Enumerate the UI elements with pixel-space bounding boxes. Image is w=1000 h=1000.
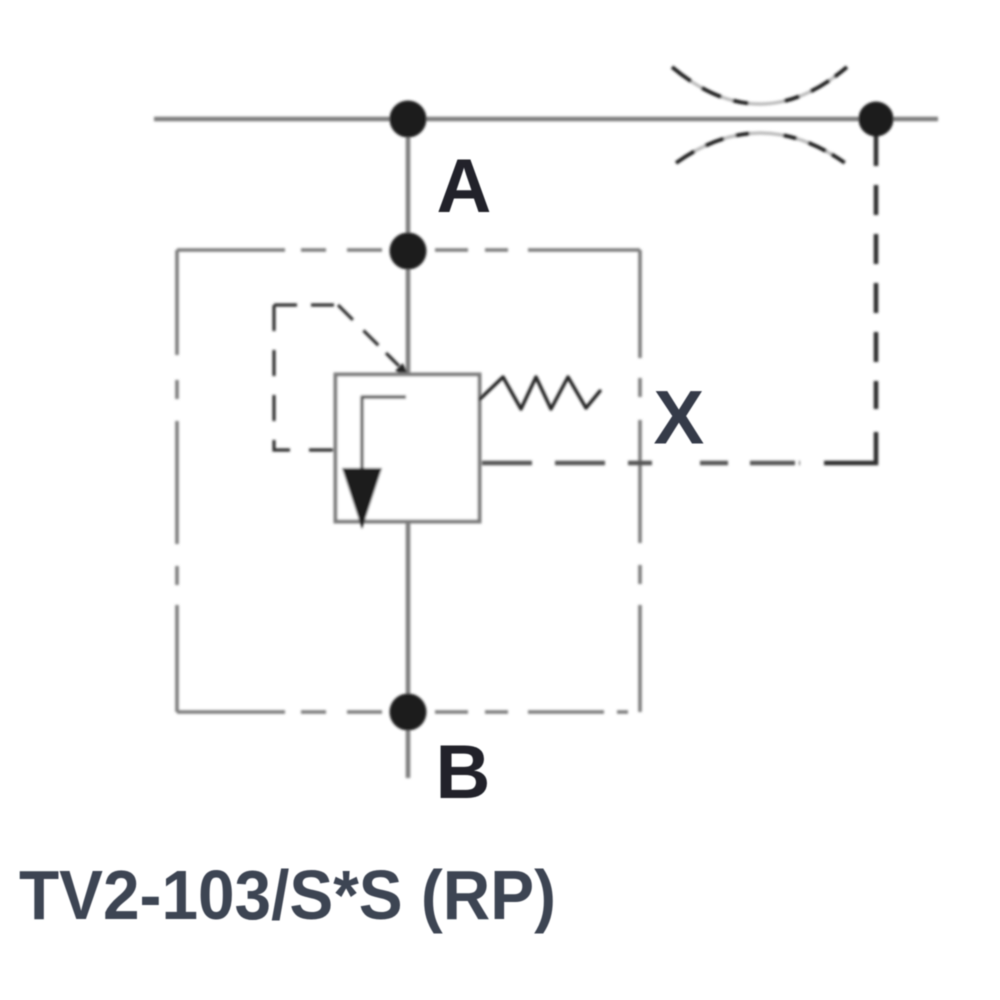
wire: main vertical line lower (valve to B) bbox=[406, 522, 411, 778]
pilot line X: corner dash bbox=[824, 432, 876, 463]
valve internal arrowhead bbox=[342, 468, 382, 529]
valve body square bbox=[336, 375, 480, 522]
node junction top bbox=[390, 101, 427, 138]
svg-text:B: B bbox=[436, 730, 491, 815]
dashed adjustment box top edge bbox=[274, 303, 338, 306]
dash-dot enclosure boundary top edge bbox=[177, 248, 640, 252]
wire: main vertical line upper (node to valve) bbox=[406, 119, 411, 374]
orifice lower arc dark dashes bbox=[676, 133, 845, 163]
dash-dot enclosure boundary right edge bbox=[638, 250, 642, 712]
svg-text:X: X bbox=[654, 376, 705, 461]
wire: top horizontal supply line bbox=[154, 117, 938, 122]
node A junction bbox=[390, 233, 427, 270]
dash-dot enclosure boundary left edge bbox=[175, 250, 179, 712]
orifice upper arc dark dashes bbox=[672, 67, 847, 104]
svg-text:A: A bbox=[437, 144, 492, 229]
svg-text:TV2-103/S*S (RP): TV2-103/S*S (RP) bbox=[19, 856, 556, 934]
spring bbox=[480, 377, 600, 409]
adjustment arrowhead bbox=[386, 353, 399, 366]
valve internal flow path bbox=[362, 397, 406, 468]
pilot line X: dashed vertical from right node bbox=[874, 136, 879, 409]
node B junction bbox=[390, 694, 427, 731]
orifice lower arc base bbox=[676, 133, 845, 163]
dashed adjustment diagonal bbox=[338, 305, 394, 361]
node junction right bbox=[859, 102, 894, 137]
pilot line X: dashed horizontal to valve bbox=[482, 461, 800, 466]
dashed adjustment box left and bottom edges bbox=[274, 305, 333, 450]
orifice upper arc base bbox=[672, 67, 847, 104]
dash-dot enclosure boundary bottom edge bbox=[177, 710, 640, 714]
